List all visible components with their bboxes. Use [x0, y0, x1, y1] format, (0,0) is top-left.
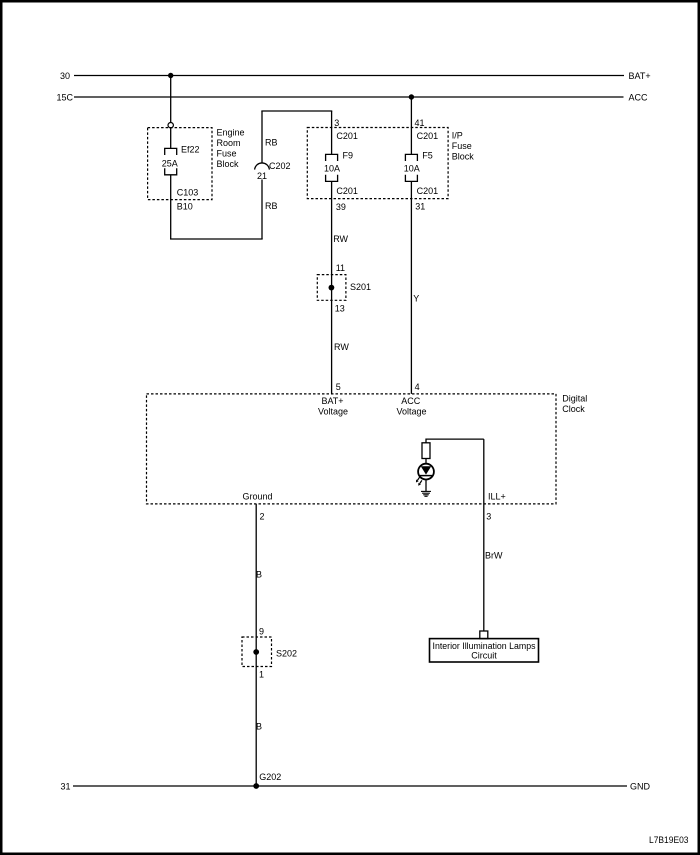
- svg-text:Voltage: Voltage: [318, 406, 348, 416]
- junction node on ACC bus: [409, 94, 414, 99]
- svg-text:1: 1: [259, 669, 264, 679]
- label ACC Voltage: [396, 396, 426, 417]
- wire up from corner to C202: [261, 180, 263, 240]
- svg-text:3: 3: [486, 511, 491, 521]
- svg-text:21: 21: [257, 171, 267, 181]
- wire lamp top run: [426, 439, 484, 443]
- svg-text:5: 5: [336, 382, 341, 392]
- svg-text:9: 9: [259, 626, 264, 636]
- svg-text:30: 30: [60, 71, 70, 81]
- wire Ef22 down to corner: [170, 175, 172, 239]
- fuse F5: [405, 154, 417, 181]
- svg-text:S202: S202: [276, 648, 297, 658]
- svg-text:Fuse: Fuse: [452, 141, 472, 151]
- svg-text:41: 41: [415, 118, 425, 128]
- label BAT+ Voltage: [318, 396, 348, 417]
- fuse Ef22: [165, 148, 177, 174]
- wire into fuse Ef22: [170, 128, 172, 148]
- wire 15C ACC bus: [74, 96, 624, 98]
- svg-text:G202: G202: [259, 772, 281, 782]
- svg-text:Y: Y: [413, 294, 419, 304]
- svg-text:RW: RW: [334, 342, 349, 352]
- svg-text:ILL+: ILL+: [488, 491, 506, 501]
- svg-text:Engine: Engine: [217, 127, 245, 137]
- ground (internal, LED cathode): [421, 491, 431, 496]
- svg-text:13: 13: [335, 304, 345, 314]
- wire pin 3 ILL+ down to interior lamps: [483, 439, 485, 631]
- wire GND bus: [73, 785, 627, 787]
- splice S201 node: [329, 285, 335, 291]
- svg-text:3: 3: [334, 118, 339, 128]
- wire LED to internal ground: [425, 480, 427, 492]
- svg-text:RB: RB: [265, 201, 278, 211]
- svg-text:GND: GND: [630, 781, 651, 791]
- LED illumination lamp: [418, 464, 434, 480]
- resistor (lamp ballast): [422, 443, 430, 459]
- svg-text:Clock: Clock: [562, 404, 585, 414]
- wire F5 down to digital clock pin 4: [410, 181, 412, 394]
- svg-text:15C: 15C: [56, 92, 73, 102]
- svg-text:25A: 25A: [162, 159, 178, 169]
- label I/P Fuse Block: [452, 131, 475, 162]
- svg-text:B: B: [256, 569, 262, 579]
- svg-text:C202: C202: [269, 161, 291, 171]
- label Digital Clock: [562, 393, 587, 414]
- svg-text:RB: RB: [265, 138, 278, 148]
- wire pin 2 down to G202: [255, 504, 257, 786]
- svg-text:31: 31: [415, 201, 425, 211]
- svg-text:BrW: BrW: [485, 550, 503, 560]
- svg-text:F5: F5: [422, 150, 433, 160]
- svg-text:F9: F9: [343, 150, 354, 160]
- svg-text:BAT+: BAT+: [629, 71, 651, 81]
- wire 30 BAT+ bus: [74, 75, 624, 77]
- svg-text:Block: Block: [452, 152, 475, 162]
- svg-text:C201: C201: [417, 131, 439, 141]
- svg-text:L7B19E03: L7B19E03: [649, 835, 689, 845]
- ground node G202: [253, 783, 259, 789]
- connector C202 arc: [255, 163, 270, 170]
- svg-text:I/P: I/P: [452, 131, 463, 141]
- splice S202 box: [242, 637, 272, 667]
- svg-text:39: 39: [336, 202, 346, 212]
- junction node on 30 bus: [168, 73, 173, 78]
- wire down into fuse F9: [331, 111, 333, 154]
- svg-text:S201: S201: [350, 282, 371, 292]
- svg-text:Ef22: Ef22: [181, 145, 200, 155]
- svg-text:Voltage: Voltage: [396, 406, 426, 416]
- svg-text:Fuse: Fuse: [217, 148, 237, 158]
- svg-text:11: 11: [336, 263, 345, 273]
- digital clock box: [147, 394, 557, 504]
- fuse F9: [326, 154, 338, 181]
- svg-text:C201: C201: [336, 131, 358, 141]
- svg-text:BAT+: BAT+: [321, 396, 343, 406]
- svg-text:Digital: Digital: [562, 393, 587, 403]
- wire 30 bus down to Engine Room fuse block: [170, 76, 172, 123]
- connector square at interior lamps box: [480, 631, 488, 639]
- wire F9 down to digital clock pin 5: [331, 181, 333, 394]
- Engine Room fuse block box: [148, 128, 212, 200]
- svg-text:10A: 10A: [324, 164, 340, 174]
- splice S201 box: [317, 275, 346, 301]
- wire resistor to LED: [425, 459, 427, 464]
- svg-text:2: 2: [260, 511, 265, 521]
- svg-text:RW: RW: [333, 234, 348, 244]
- svg-text:ACC: ACC: [401, 396, 421, 406]
- wire C202 up to top run: [261, 111, 263, 163]
- svg-text:Room: Room: [217, 138, 241, 148]
- interior illumination lamps circuit box: [430, 639, 539, 662]
- wire ACC bus down into fuse F5: [410, 97, 412, 154]
- svg-text:4: 4: [415, 382, 420, 392]
- svg-text:C103: C103: [177, 188, 199, 198]
- svg-text:C201: C201: [336, 186, 358, 196]
- svg-text:Circuit: Circuit: [471, 651, 497, 661]
- svg-text:Interior Illumination Lamps: Interior Illumination Lamps: [433, 641, 536, 651]
- svg-text:Block: Block: [217, 159, 240, 169]
- label Interior Illumination Lamps Circuit: [433, 641, 536, 661]
- LED emission arrows: [416, 477, 422, 486]
- svg-text:Ground: Ground: [243, 491, 273, 501]
- wire horizontal top run to I/P fuse block: [261, 110, 332, 112]
- svg-text:C201: C201: [417, 186, 439, 196]
- label Engine Room Fuse Block: [217, 127, 245, 169]
- svg-text:ACC: ACC: [629, 92, 649, 102]
- svg-text:10A: 10A: [404, 164, 420, 174]
- I/P fuse block box: [307, 128, 448, 199]
- svg-text:B10: B10: [177, 202, 193, 212]
- splice S202 node: [253, 649, 259, 655]
- svg-text:31: 31: [60, 781, 70, 791]
- svg-text:B: B: [256, 721, 262, 731]
- connector circle at fuse block entry: [168, 123, 173, 128]
- wire horizontal bottom run to C202 branch: [170, 238, 263, 240]
